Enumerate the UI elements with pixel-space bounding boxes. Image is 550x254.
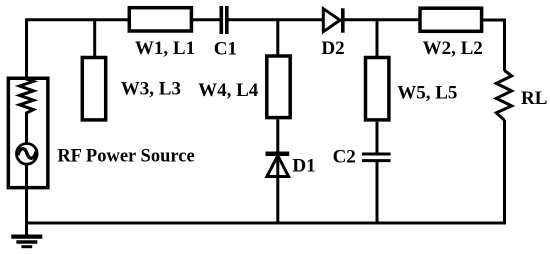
svg-text:D1: D1 [292,155,315,176]
svg-text:W4, L4: W4, L4 [198,80,259,101]
svg-text:RL: RL [521,88,547,109]
svg-text:W5, L5: W5, L5 [397,83,457,104]
svg-text:W3, L3: W3, L3 [121,78,181,99]
svg-text:C1: C1 [214,39,237,60]
svg-text:RF Power Source: RF Power Source [57,146,194,166]
svg-text:W2, L2: W2, L2 [423,38,483,59]
svg-text:W1, L1: W1, L1 [135,38,195,59]
svg-text:D2: D2 [321,38,344,59]
svg-text:C2: C2 [333,147,356,168]
